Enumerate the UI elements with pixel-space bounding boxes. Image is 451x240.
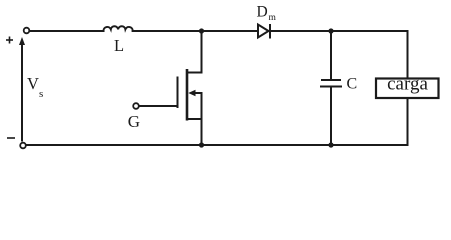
svg-text:C: C	[347, 76, 358, 93]
svg-text:s: s	[39, 88, 43, 100]
svg-text:L: L	[114, 36, 124, 55]
svg-text:D: D	[257, 4, 268, 21]
svg-text:carga: carga	[387, 74, 428, 95]
svg-text:m: m	[269, 13, 277, 23]
svg-text:G: G	[128, 112, 140, 131]
svg-text:V: V	[27, 74, 39, 93]
